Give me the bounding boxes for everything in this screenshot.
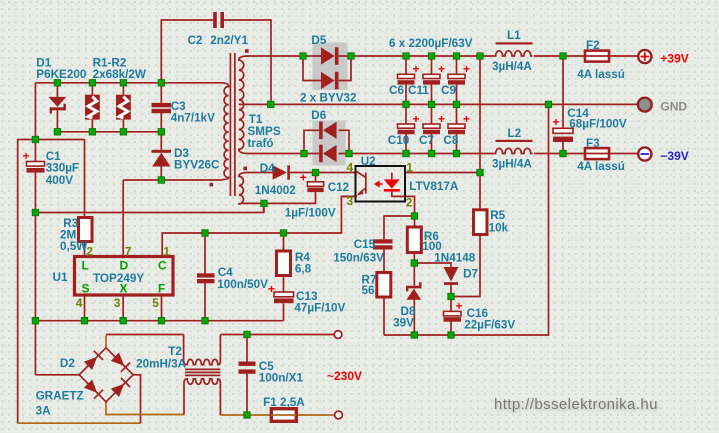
junction node D7 cathode xyxy=(448,293,454,299)
resistor R1 xyxy=(85,95,100,120)
wire bus2 aux return (y=212.5) xyxy=(35,203,263,212)
inductor L1 label xyxy=(492,29,532,73)
junction node opto feedback xyxy=(477,169,483,175)
wire C3 column xyxy=(160,83,162,180)
svg-text:C15: C15 xyxy=(354,238,376,251)
svg-text:F1 2,5A: F1 2,5A xyxy=(263,396,305,409)
wire IC bottom pins xyxy=(85,295,162,321)
wire R1 leads xyxy=(91,83,93,132)
wire C1+ to R3 (y=139.5) xyxy=(35,140,84,218)
svg-text:C2: C2 xyxy=(188,34,203,47)
svg-text:+: + xyxy=(463,62,470,76)
svg-text:4A lassú: 4A lassú xyxy=(577,68,625,81)
svg-text:LTV817A: LTV817A xyxy=(409,180,459,193)
resistor R4 xyxy=(277,251,291,276)
transformer T1 label xyxy=(248,113,281,150)
svg-text:+39V: +39V xyxy=(660,52,688,66)
resistor R3 label xyxy=(60,217,88,253)
resistor R5 label xyxy=(489,209,509,235)
svg-text:C8: C8 xyxy=(443,134,458,147)
bridge D2 xyxy=(79,348,133,402)
wire R5 column x=480 xyxy=(451,56,480,297)
svg-text:D5: D5 xyxy=(311,34,326,47)
diode D4 label xyxy=(255,162,296,197)
svg-text:1: 1 xyxy=(163,245,170,259)
resistor R6 xyxy=(407,227,421,253)
node AC top line xyxy=(106,335,184,349)
svg-text:20mH/3A: 20mH/3A xyxy=(136,358,187,371)
watermark xyxy=(494,396,658,413)
wire R3 to pin L xyxy=(84,242,86,257)
svg-text:400V: 400V xyxy=(46,174,74,187)
wire secondary tap lead xyxy=(239,103,271,105)
inductor L1 xyxy=(494,42,532,56)
wire C14 column xyxy=(562,56,564,154)
transformer T1 phase dot aux xyxy=(243,167,247,171)
wire clamp bus (y=131.8) xyxy=(57,131,161,133)
junction node R6 top xyxy=(411,213,417,219)
svg-text:4: 4 xyxy=(76,296,83,310)
junction node drain xyxy=(158,177,164,183)
svg-text:+: + xyxy=(413,112,420,126)
wire DC- to bridge left corner xyxy=(35,374,79,376)
svg-text:56: 56 xyxy=(362,284,376,297)
wire AC top after choke xyxy=(220,334,333,336)
zener D8 label xyxy=(393,305,416,330)
capacitor C15 xyxy=(373,239,393,249)
svg-text:22µF/63V: 22µF/63V xyxy=(464,319,515,332)
svg-text:150n/63V: 150n/63V xyxy=(333,252,384,265)
svg-text:L: L xyxy=(82,259,89,273)
svg-text:+: + xyxy=(438,62,445,76)
svg-text:2 x BYV32: 2 x BYV32 xyxy=(300,92,357,105)
svg-text:C6: C6 xyxy=(389,84,404,97)
optocoupler U2 xyxy=(356,166,406,202)
svg-text:D: D xyxy=(120,259,129,273)
wire R2 leads xyxy=(122,83,124,132)
svg-text:47µF/10V: 47µF/10V xyxy=(294,302,345,315)
wire AC bottom line left xyxy=(106,402,184,415)
junction nodes clamp bus xyxy=(54,129,164,135)
junction nodes D5 xyxy=(300,53,354,59)
wire secondary bottom lead xyxy=(248,153,305,155)
capacitor C12 label xyxy=(285,181,350,220)
capacitor C4 label xyxy=(217,266,268,291)
svg-text:L2: L2 xyxy=(508,127,522,140)
transformer T1 core xyxy=(230,53,235,196)
capacitor C3 label xyxy=(171,100,215,125)
diode D6 pair xyxy=(304,122,349,163)
wire C8 column xyxy=(456,104,458,153)
wire C12 column xyxy=(264,173,316,213)
svg-text:4: 4 xyxy=(347,161,354,175)
fuse F3 label xyxy=(577,137,625,173)
wire C4 column xyxy=(204,233,206,321)
capacitor C7 xyxy=(423,112,445,134)
capacitor C6 C11 C9 labels xyxy=(389,84,456,97)
svg-text:T2: T2 xyxy=(168,345,182,358)
wire aux top lead to D4 xyxy=(248,172,356,174)
capacitor C1 xyxy=(23,149,45,173)
wire feedback ground bus (y=335) xyxy=(384,104,549,335)
capacitor C5 xyxy=(239,362,256,374)
svg-text:+: + xyxy=(268,282,275,296)
transformer T1 phase dot primary xyxy=(210,183,214,187)
resistor R2 xyxy=(116,95,131,120)
capacitor C14 xyxy=(553,115,574,142)
svg-text:F2: F2 xyxy=(586,39,600,52)
choke T2 label xyxy=(136,345,187,371)
capacitor C5 label xyxy=(259,360,304,385)
svg-text:1N4148: 1N4148 xyxy=(434,252,475,265)
svg-text:39V: 39V xyxy=(393,317,414,330)
junction nodes -39 rail xyxy=(403,150,566,156)
svg-text:6,8: 6,8 xyxy=(295,263,312,276)
wire U2 pin2 to junction xyxy=(405,196,415,216)
svg-text:100n/50V: 100n/50V xyxy=(217,278,268,291)
svg-text:4n7/1kV: 4n7/1kV xyxy=(171,112,215,125)
svg-text:BYV26C: BYV26C xyxy=(174,159,220,172)
junction node C1 top xyxy=(32,136,38,142)
terminal -39V xyxy=(638,147,651,160)
junction nodes feedback ground xyxy=(411,332,454,338)
wire bridge right corner loop via x=17.7 xyxy=(18,140,141,424)
svg-text:−39V: −39V xyxy=(660,149,688,163)
svg-text:2: 2 xyxy=(86,245,93,259)
junction node aux return xyxy=(261,200,267,206)
capacitor C2 xyxy=(213,12,224,28)
svg-text:7: 7 xyxy=(125,245,132,259)
svg-text:X: X xyxy=(120,282,128,296)
svg-text:3µH/4A: 3µH/4A xyxy=(492,60,532,73)
svg-text:D7: D7 xyxy=(463,268,478,281)
diode D5 label xyxy=(311,34,326,47)
ic U1 label xyxy=(53,271,68,284)
wire D1 column xyxy=(56,83,58,132)
junction node C1 bus2 xyxy=(32,209,38,215)
junction nodes bus82 xyxy=(54,80,164,86)
capacitor C9 xyxy=(448,62,470,85)
wire C11 column xyxy=(431,56,433,104)
svg-text:D4: D4 xyxy=(260,162,275,175)
svg-text:P6KE200: P6KE200 xyxy=(36,68,87,81)
diode D1 label xyxy=(36,57,87,82)
svg-text:5: 5 xyxy=(152,296,159,310)
terminal AC neutral open circle xyxy=(335,411,343,419)
junction node C5 top xyxy=(244,331,250,337)
wire GND rail (y=104.4) xyxy=(271,103,638,105)
svg-text:3: 3 xyxy=(114,296,121,310)
capacitor C14 label xyxy=(567,107,627,131)
zener D8 xyxy=(406,282,422,300)
svg-text:0,5W: 0,5W xyxy=(60,240,88,253)
svg-text:+: + xyxy=(300,171,307,185)
inductor L2 label xyxy=(492,127,532,171)
fuse F1 xyxy=(271,409,296,422)
label -39V xyxy=(660,149,688,163)
terminal GND xyxy=(638,98,652,112)
svg-text:2n2/Y1: 2n2/Y1 xyxy=(210,34,248,47)
svg-text:+: + xyxy=(438,112,445,126)
wire C6 column xyxy=(405,56,407,104)
wire U2 pin1 to x480 xyxy=(405,172,480,174)
diode D7 xyxy=(444,267,459,285)
svg-text:F: F xyxy=(158,282,165,296)
wire drain bus (y=180) xyxy=(123,180,222,257)
wire -39 rail (y=153.5) xyxy=(349,153,638,155)
transformer T1 phase dot secondary xyxy=(245,49,249,53)
svg-text:68µF/100V: 68µF/100V xyxy=(569,118,627,131)
fuse F2 xyxy=(585,51,609,62)
diode D3 label xyxy=(174,147,220,172)
svg-text:3µH/4A: 3µH/4A xyxy=(492,158,532,171)
svg-text:GND: GND xyxy=(660,100,687,114)
junction node C1 bus3 xyxy=(32,318,38,324)
svg-text:GRAETZ: GRAETZ xyxy=(36,390,84,403)
resistor R7 xyxy=(377,273,391,298)
diode D5 gray box xyxy=(313,43,348,91)
svg-text:+: + xyxy=(456,299,463,313)
svg-text:D6: D6 xyxy=(311,109,326,122)
junction nodes +39 rail xyxy=(403,53,566,59)
junction nodes control bus xyxy=(202,230,287,236)
wire C2 left leg xyxy=(161,20,213,83)
fuse F3 xyxy=(585,148,609,159)
wire DC+ bus top (y=82.8) xyxy=(35,82,222,84)
diode D1 xyxy=(49,97,67,114)
wire C10 column xyxy=(405,104,407,153)
capacitor C4 xyxy=(197,273,215,283)
label GND xyxy=(660,100,687,114)
svg-text:+: + xyxy=(463,112,470,126)
diode D5 pair xyxy=(303,47,351,89)
resistor R3 xyxy=(79,218,93,242)
capacitor C16 xyxy=(444,299,463,322)
capacitor C13 label xyxy=(294,290,345,315)
junction node R6 bottom xyxy=(411,260,417,266)
bridge D2 labels xyxy=(36,357,84,418)
capacitor C15 label xyxy=(333,238,384,265)
junction nodes D6 xyxy=(301,150,352,156)
junction node C5 bottom xyxy=(244,412,250,418)
diode D6 gray box xyxy=(313,121,346,166)
svg-text:100n/X1: 100n/X1 xyxy=(259,372,304,385)
inductor L2 xyxy=(494,140,532,154)
svg-text:U1: U1 xyxy=(53,271,68,284)
svg-text:1N4002: 1N4002 xyxy=(255,184,296,197)
terminal +39V xyxy=(638,50,651,63)
wire C9 column xyxy=(456,56,458,104)
junction nodes source bus xyxy=(81,318,208,324)
capacitor C2 label xyxy=(188,34,249,47)
resistor R6 label xyxy=(422,230,442,253)
svg-text:3: 3 xyxy=(347,194,354,208)
resistor R1-R2 label xyxy=(93,57,147,82)
wire U2 pin3 xyxy=(341,195,355,197)
svg-text:S: S xyxy=(82,282,90,296)
svg-text:+: + xyxy=(553,115,560,129)
svg-text:4A lassú: 4A lassú xyxy=(577,160,625,173)
svg-text:C7: C7 xyxy=(419,134,434,147)
wire C7 column xyxy=(431,104,433,153)
capacitor C16 label xyxy=(464,307,515,332)
choke T2 xyxy=(184,335,221,416)
diode D7 label xyxy=(434,252,478,281)
wire pin7 to bus2 xyxy=(122,212,124,214)
wire source bus (y=320.7) xyxy=(35,320,283,322)
svg-text:+: + xyxy=(413,62,420,76)
svg-text:1: 1 xyxy=(406,161,413,175)
fuse F2 label xyxy=(577,39,625,81)
svg-text:C: C xyxy=(158,259,167,273)
wire C16 column xyxy=(450,297,452,336)
diode D5 D6 value label xyxy=(300,92,357,105)
capacitor C3 xyxy=(152,103,172,113)
svg-text:R5: R5 xyxy=(490,209,505,222)
resistor R5 xyxy=(474,210,488,235)
label +39V xyxy=(660,52,688,66)
wire C2 right leg to center tap xyxy=(224,20,271,104)
svg-text:2x68k/2W: 2x68k/2W xyxy=(93,68,147,81)
wire R6 column xyxy=(413,216,415,335)
svg-text:http://bsselektronika.hu: http://bsselektronika.hu xyxy=(494,396,658,413)
capacitor bank label xyxy=(389,37,473,50)
ic U1 TOP249Y xyxy=(75,257,174,296)
svg-text:C11: C11 xyxy=(408,84,429,97)
capacitor C12 xyxy=(300,171,324,193)
junction node C12 xyxy=(312,169,318,175)
wire secondary top lead xyxy=(248,55,304,57)
svg-text:C9: C9 xyxy=(441,84,456,97)
junction node center tap xyxy=(268,101,274,107)
capacitor C10 xyxy=(398,112,420,134)
wire C15 R7 column xyxy=(384,216,415,335)
transformer T1 primary winding xyxy=(222,83,229,180)
svg-text:L1: L1 xyxy=(507,29,521,42)
transformer T1 secondary winding xyxy=(239,56,248,154)
optocoupler U2 labels xyxy=(347,155,459,210)
wire AC bottom after choke xyxy=(220,414,334,416)
terminal AC line open circle xyxy=(334,331,342,339)
svg-text:C12: C12 xyxy=(328,181,350,194)
capacitor C13 xyxy=(268,282,294,303)
junction nodes GND rail xyxy=(403,101,552,107)
diode D6 label xyxy=(311,109,326,122)
svg-text:F3: F3 xyxy=(586,137,600,150)
capacitor C1 label xyxy=(46,150,79,187)
wire C1 column x=35.4 xyxy=(34,83,36,375)
wire R4 C13 column xyxy=(283,233,285,321)
svg-text:10k: 10k xyxy=(489,222,509,235)
resistor R4 label xyxy=(295,251,312,276)
capacitor C10 C7 C8 labels xyxy=(388,134,459,147)
transformer T1 aux winding xyxy=(239,173,248,204)
svg-text:2: 2 xyxy=(406,196,413,210)
capacitor C6 xyxy=(398,62,420,85)
label 230V xyxy=(327,369,362,383)
svg-text:6 x 2200µF/63V: 6 x 2200µF/63V xyxy=(389,37,473,50)
svg-text:trafó: trafó xyxy=(248,137,274,150)
svg-text:C10: C10 xyxy=(388,134,410,147)
svg-text:~230V: ~230V xyxy=(327,369,362,383)
svg-text:U2: U2 xyxy=(361,155,376,168)
capacitor C8 xyxy=(448,112,470,134)
resistor R7 label xyxy=(362,274,377,298)
diode D4 xyxy=(273,165,290,179)
wire C5 column xyxy=(246,335,248,416)
svg-text:330µF: 330µF xyxy=(46,162,79,175)
wire D7 branch xyxy=(414,263,451,297)
svg-text:1µF/100V: 1µF/100V xyxy=(285,207,336,220)
wire +39 rail (y=56) xyxy=(351,55,638,57)
svg-text:3A: 3A xyxy=(36,405,52,418)
capacitor C11 xyxy=(423,62,445,85)
svg-text:D2: D2 xyxy=(60,357,75,370)
wire control bus (y=233) xyxy=(162,196,355,256)
fuse F1 label xyxy=(263,396,305,409)
svg-text:+: + xyxy=(23,149,30,163)
diode D3 xyxy=(152,150,172,167)
ic U1 pin numbers xyxy=(76,245,171,311)
